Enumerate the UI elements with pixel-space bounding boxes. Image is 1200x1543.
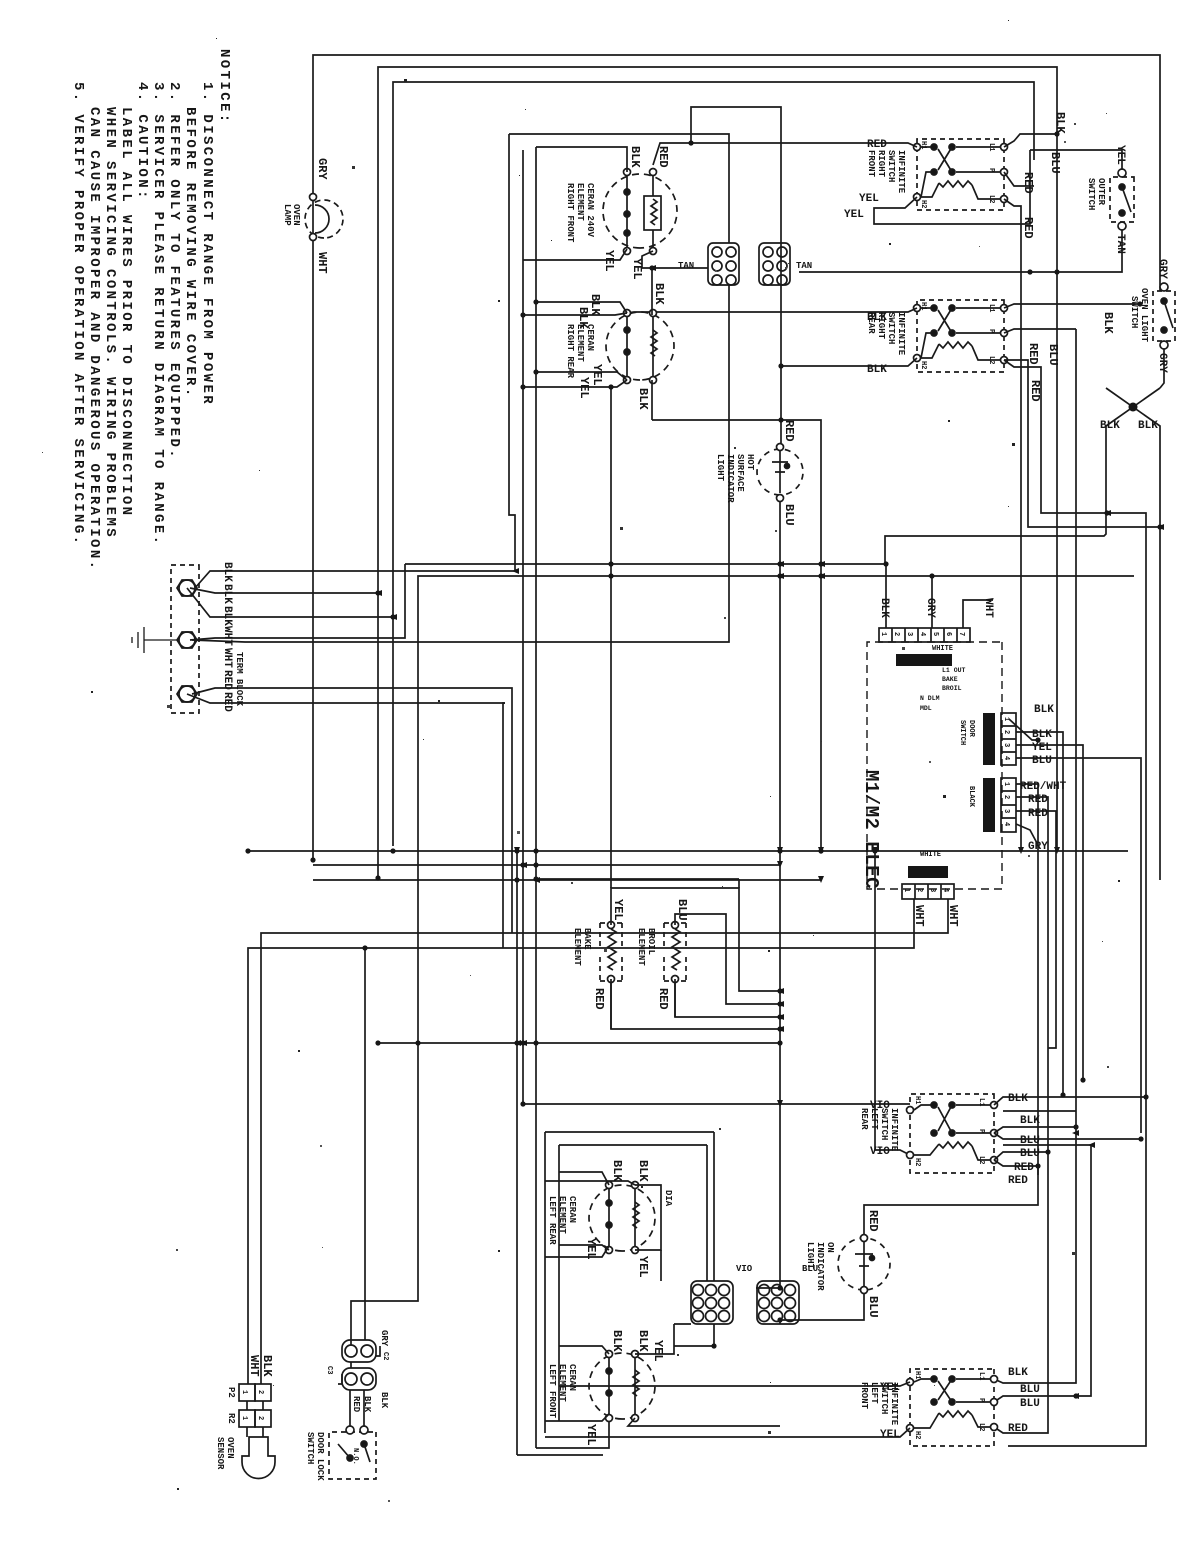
svg-text:TERM BLOCK: TERM BLOCK [234,652,244,707]
svg-text:RED: RED [867,139,887,151]
svg-text:2. REFER ONLY TO FEATURES EQUI: 2. REFER ONLY TO FEATURES EQUIPPED. [166,82,182,460]
svg-text:MDL: MDL [920,705,932,712]
svg-text:TAN: TAN [796,261,812,271]
svg-text:BROIL: BROIL [646,928,656,955]
svg-text:BLU: BLU [1020,1148,1040,1160]
svg-text:RED: RED [656,146,670,168]
svg-text:LIGHT: LIGHT [715,454,725,482]
svg-text:WHT: WHT [982,598,994,618]
svg-text:1: 1 [902,888,910,892]
svg-text:RED/WHT: RED/WHT [1020,781,1067,793]
junction L1 wire to frame [1054,131,1059,136]
svg-text:VIO: VIO [870,1100,890,1112]
bundle vertical X880 [313,879,821,881]
wire YEL long rail Y589 [610,387,612,888]
svg-text:2: 2 [892,632,900,636]
svg-text:RIGHT FRONT: RIGHT FRONT [565,183,575,243]
svg-text:L1: L1 [987,304,995,312]
svg-text:RED: RED [782,420,796,442]
svg-text:SWITCH: SWITCH [1086,178,1096,210]
svg-text:2: 2 [1002,730,1010,734]
svg-text:ELEMENT: ELEMENT [572,928,582,966]
svg-text:BLK: BLK [1032,729,1052,741]
wire RED to H1 of RF switch [653,143,917,165]
svg-text:BLU: BLU [1020,1398,1040,1410]
svg-text:LEFT REAR: LEFT REAR [547,1196,557,1245]
svg-text:BAKE: BAKE [582,928,592,950]
svg-text:1: 1 [240,1416,248,1420]
svg-text:REAR: REAR [859,1108,869,1130]
LR switch top feeds [994,1097,1146,1105]
svg-text:GRY: GRY [315,158,329,180]
svg-text:BLK: BLK [588,294,602,316]
svg-text:BLK: BLK [379,1392,389,1409]
svg-text:1: 1 [879,632,887,636]
svg-text:RED: RED [866,1210,880,1232]
wire GRY rail Y782 to C2 connector [351,576,419,1345]
svg-text:LAMP: LAMP [282,204,292,226]
svg-text:C2: C2 [381,1352,389,1360]
svg-text:WHITE: WHITE [932,645,953,653]
wires from RR switch top terminals [1004,304,1140,308]
svg-text:BLU: BLU [1046,344,1060,366]
svg-text:H2: H2 [919,200,927,208]
svg-text:BLU: BLU [782,504,796,526]
wire RED from RR P terminal across to right [1075,329,1077,1111]
svg-text:BLK: BLK [628,146,642,168]
term block RED wires [187,688,505,703]
svg-text:WHITE: WHITE [920,851,941,859]
wires P2-R2 [247,1401,263,1437]
black header bar P5 [896,654,952,666]
svg-text:1. DISCONNECT RANGE FROM POWER: 1. DISCONNECT RANGE FROM POWER [199,82,215,406]
svg-text:3. SERVICER PLEASE RETURN DIAG: 3. SERVICER PLEASE RETURN DIAGRAM TO RAN… [150,82,166,546]
svg-text:OVEN: OVEN [291,204,301,226]
svg-text:ELEMENT: ELEMENT [575,324,585,362]
svg-text:GRY: GRY [1028,841,1048,853]
svg-text:BLK: BLK [221,606,233,626]
svg-text:INFINITE: INFINITE [896,312,906,356]
control box M1/M2 [867,642,1002,889]
wire RR element YEL bottom left rail [536,302,627,313]
svg-text:SURFACE: SURFACE [735,454,745,492]
svg-text:4: 4 [1002,822,1010,826]
svg-text:RED: RED [351,1396,361,1413]
svg-text:BLK: BLK [221,584,233,604]
svg-text:1: 1 [1002,782,1010,786]
svg-text:YEL: YEL [859,193,879,205]
svg-text:ELEMENT: ELEMENT [575,183,585,221]
svg-text:RIGHT REAR: RIGHT REAR [565,324,575,379]
svg-text:WHT: WHT [221,648,233,668]
7-pin header P5 [879,628,970,642]
svg-text:TAN: TAN [1114,234,1126,254]
svg-text:VIO: VIO [870,1146,890,1158]
svg-text:BLK: BLK [1008,1093,1028,1105]
svg-text:BLK: BLK [878,598,890,618]
svg-text:BLU: BLU [675,899,689,921]
svg-text:VIO: VIO [736,1264,753,1274]
svg-text:P: P [977,1129,985,1133]
svg-text:ON: ON [825,1242,835,1253]
svg-text:WHT: WHT [247,1355,261,1377]
wire rail Y471 left to X134 vertical [509,134,729,243]
wire BLK to H2 of RR switch [781,358,917,366]
svg-text:H1: H1 [913,1371,921,1379]
junction arrows [375,590,382,596]
svg-text:L2: L2 [987,195,995,203]
wire frame 2 (portrait px378) [378,67,1057,878]
svg-text:3: 3 [1002,809,1010,813]
svg-text:L1: L1 [987,143,995,151]
svg-text:4. CAUTION:: 4. CAUTION: [134,82,150,201]
svg-text:C3: C3 [325,1366,333,1374]
svg-text:WHT: WHT [315,252,329,274]
svg-text:3: 3 [928,888,936,892]
svg-text:P2: P2 [226,1387,236,1398]
svg-text:H2: H2 [913,1158,921,1166]
svg-text:L2: L2 [977,1423,985,1431]
svg-text:2: 2 [1002,795,1010,799]
svg-text:H1: H1 [919,141,927,149]
svg-text:L2: L2 [977,1156,985,1164]
svg-text:RED: RED [221,670,233,690]
svg-text:BLK: BLK [636,1160,650,1182]
rail Y685/Y691 left portion [509,134,515,571]
svg-text:LABEL ALL WIRES PRIOR TO DISCO: LABEL ALL WIRES PRIOR TO DISCONNECTION [118,107,134,517]
RED wire to ON light [864,1166,1038,1236]
wire frame 3 (portrait px393) [393,82,1034,846]
svg-text:YEL: YEL [584,1424,598,1446]
svg-text:SWITCH: SWITCH [958,720,966,745]
rail Y664 (portrait px536) [535,147,537,1448]
wires from connector P9 with labels [1009,719,1038,740]
svg-text:RED: RED [1021,217,1035,239]
svg-text:OVEN: OVEN [225,1437,235,1459]
svg-text:L1: L1 [977,1098,985,1106]
svg-text:L2: L2 [987,356,995,364]
svg-text:P: P [987,329,995,333]
LF element wires [635,1324,674,1354]
svg-text:SWITCH: SWITCH [879,1108,889,1140]
svg-text:SWITCH: SWITCH [886,150,896,182]
svg-text:2: 2 [256,1416,264,1420]
svg-text:RED: RED [1008,1175,1028,1187]
wires C3 to door lock [350,1390,364,1426]
svg-text:RED: RED [592,988,606,1010]
svg-text:1: 1 [240,1390,248,1394]
wire RR element YEL right down [536,372,627,380]
svg-text:CERAN: CERAN [585,324,595,351]
svg-text:WHT: WHT [221,626,233,646]
wire BLU from hot light right (long rail Y419) [756,502,780,1288]
svg-text:RED: RED [1028,808,1048,820]
svg-text:RED: RED [221,692,233,712]
svg-text:YEL: YEL [1114,145,1126,165]
svg-text:ELEMENT: ELEMENT [636,928,646,966]
rail to LR switch H2 [536,1422,609,1448]
svg-text:BLK: BLK [636,1330,650,1352]
svg-text:TAN: TAN [678,261,694,271]
svg-text:NOTICE:: NOTICE: [216,49,232,125]
wires Y125 Y109 cross to LF [994,1111,1076,1383]
svg-text:INFINITE: INFINITE [896,150,906,194]
svg-text:RED: RED [1008,1423,1028,1435]
svg-text:H1: H1 [913,1096,921,1104]
svg-text:4: 4 [918,632,926,636]
svg-text:BLACK: BLACK [967,786,975,808]
svg-text:RED: RED [1028,380,1042,402]
svg-text:BLK: BLK [1020,1115,1040,1127]
svg-text:BROIL: BROIL [942,685,962,692]
scan speckles [1008,506,1009,507]
svg-text:BLK: BLK [1053,112,1067,134]
svg-text:BLK: BLK [221,562,233,582]
svg-text:BLK: BLK [1034,704,1054,716]
svg-text:GRY: GRY [1156,259,1168,279]
svg-text:YEL: YEL [1032,742,1052,754]
svg-text:WHT: WHT [912,905,926,927]
svg-text:L1 OUT: L1 OUT [942,667,966,674]
wire RF element YEL bottom to Y677 rail [523,249,627,260]
svg-text:YEL: YEL [880,1429,900,1441]
junction dot X851 bottom [245,848,250,853]
junctions RR top [1137,301,1142,306]
wire LR dia to block C [660,1250,662,1281]
svg-text:P: P [987,168,995,172]
wire bake YEL left [611,888,780,991]
wire broil BLU left [675,914,780,1004]
svg-text:L1: L1 [977,1372,985,1380]
svg-text:4: 4 [941,888,949,892]
svg-text:DIA: DIA [663,1190,673,1207]
wire broil RED right [675,979,780,1017]
svg-text:2: 2 [256,1390,264,1394]
svg-text:OUTER: OUTER [1096,178,1106,206]
wire outer switch left YEL [1030,150,1122,169]
svg-text:H2: H2 [919,361,927,369]
svg-text:BLK: BLK [1101,312,1115,334]
svg-text:HOT: HOT [745,454,755,471]
DIA bypass wire LR element [635,1185,661,1250]
svg-text:N.O.: N.O. [351,1448,359,1465]
svg-text:BAKE: BAKE [942,676,958,683]
svg-text:BEFORE REMOVING WIRE COVER.: BEFORE REMOVING WIRE COVER. [182,107,198,399]
svg-text:1: 1 [1002,717,1010,721]
wire BLU from ON light to block D [780,1294,864,1320]
svg-text:2: 2 [915,888,923,892]
rail VIO Y677 from element yel [522,150,524,1104]
wires into 7-pin header from rails [885,564,887,628]
svg-text:5: 5 [931,632,939,636]
wire gry right of oven light switch to X crossing [1160,349,1164,388]
svg-text:BLK: BLK [610,1330,624,1352]
svg-text:H2: H2 [913,1431,921,1439]
svg-text:6: 6 [944,632,952,636]
svg-text:BLU: BLU [802,1264,818,1274]
wire RF element BLK (top left) up to Y685 rail [536,147,627,172]
wire box edge X1043 [378,1042,780,1044]
svg-text:CERAN: CERAN [567,1196,577,1223]
wire BLK long to C2 [364,948,366,1340]
svg-text:RED: RED [1028,794,1048,806]
svg-text:P: P [977,1398,985,1402]
svg-text:SWITCH: SWITCH [886,312,896,344]
wire L1 main top (GRY feed, portrait px314) [313,55,1160,860]
svg-text:BLK: BLK [1138,420,1158,432]
svg-text:WHT: WHT [946,905,960,927]
svg-text:R2: R2 [226,1413,236,1424]
svg-text:BLK: BLK [610,1160,624,1182]
svg-text:DOOR LOCK: DOOR LOCK [315,1432,325,1481]
vertical X1104 to LR switch H1 [523,1103,910,1105]
svg-text:BLU: BLU [1032,755,1052,767]
svg-text:BLU: BLU [1048,152,1062,174]
svg-text:GRY: GRY [1156,353,1168,373]
ground symbol [132,627,179,653]
svg-text:BLK: BLK [260,1355,274,1377]
svg-text:RED: RED [656,988,670,1010]
svg-text:3: 3 [905,632,913,636]
bundle vertical X851 [248,850,1128,852]
bundle vertical X865 [313,864,780,866]
svg-text:GRY: GRY [379,1330,389,1347]
wire RR element BLK right down [651,268,653,315]
svg-text:RED: RED [1026,343,1040,365]
4-pin connector P9 top [1001,713,1016,765]
wire outer switch right TAN to TAN block [799,230,1122,272]
svg-text:YEL: YEL [636,1256,650,1278]
svg-text:INFINITE: INFINITE [889,1108,899,1152]
svg-text:INDICATOR: INDICATOR [725,454,735,503]
LR element wires to rails [559,1172,609,1185]
svg-text:LEFT FRONT: LEFT FRONT [547,1364,557,1419]
svg-text:BLU: BLU [1020,1384,1040,1396]
wire from block C right to LF area [674,1324,714,1346]
svg-text:RED: RED [1021,172,1035,194]
svg-text:GRY: GRY [924,598,936,618]
svg-text:DOOR: DOOR [967,720,975,738]
bottom 4-pin header P1 [902,884,954,899]
svg-text:SENSOR: SENSOR [215,1437,225,1470]
scattered scan speckles [98,300,1120,1252]
svg-text:RED: RED [1014,1162,1034,1174]
svg-text:4: 4 [1002,756,1010,760]
svg-text:RIGHT: RIGHT [876,150,886,178]
wires from bottom header to sensor rails [261,899,948,1384]
svg-text:3: 3 [1002,743,1010,747]
wire mid vertical X576 [419,575,1134,577]
wire RED rail to control [503,688,512,948]
wires block D top from BLU rail [779,1320,781,1324]
svg-text:N DLM: N DLM [920,695,940,702]
wire bake RED right [611,979,780,1029]
svg-text:SWITCH: SWITCH [1129,296,1139,328]
wires from RF switch top terminals [1004,134,1057,147]
wire RED from hot light left [691,107,781,443]
svg-text:YEL: YEL [611,899,625,921]
svg-text:BLK: BLK [636,388,650,410]
svg-text:BLK: BLK [867,364,887,376]
svg-text:YEL: YEL [880,1382,900,1394]
wire WHT rails from TAN block A to term block [192,285,729,642]
rail Y683 bottom long [517,851,603,1455]
wire YEL from H2 of RF switch down to Y782 rail [874,150,1030,224]
svg-text:CERAN 240V: CERAN 240V [585,183,595,238]
svg-text:CERAN: CERAN [567,1364,577,1391]
svg-text:FRONT: FRONT [866,150,876,178]
svg-text:BLK: BLK [652,283,666,305]
svg-text:WHEN SERVICING CONTROLS. WIRIN: WHEN SERVICING CONTROLS. WIRING PROBLEMS [102,107,118,539]
svg-text:YEL: YEL [590,364,604,386]
svg-text:H1: H1 [919,302,927,310]
svg-text:YEL: YEL [844,209,864,221]
svg-text:BLK: BLK [867,312,887,324]
svg-text:M1/M2 ELEC: M1/M2 ELEC [860,770,882,889]
svg-text:OVEN LIGHT: OVEN LIGHT [1139,288,1149,343]
LF switch bottom feeds [559,1382,910,1386]
4-pin connector P8 [1001,778,1016,832]
svg-text:BLK: BLK [1008,1367,1028,1379]
svg-text:5. VERIFY PROPER OPERATION AFT: 5. VERIFY PROPER OPERATION AFTER SERVICI… [70,82,86,546]
svg-text:SWITCH: SWITCH [305,1432,315,1464]
svg-text:7: 7 [957,632,965,636]
term block BLK wires [187,571,515,617]
wire RF element RED right to TAN block [642,251,708,268]
svg-text:BLK: BLK [1100,420,1120,432]
svg-text:BLU: BLU [866,1296,880,1318]
bottom rails of element enclosure [545,1132,714,1433]
svg-text:YEL: YEL [651,1340,665,1362]
wire mid vertical X564 [405,563,885,565]
wires from connector P8 with labels [1016,784,1038,1175]
wire BLK to H1 of RR switch [627,308,917,313]
wire box edge X879 [536,879,739,888]
